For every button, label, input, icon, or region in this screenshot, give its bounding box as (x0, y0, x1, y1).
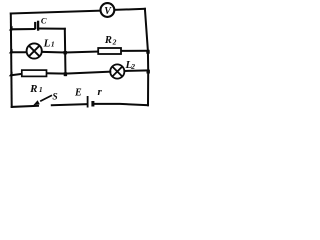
svg-text:L: L (43, 37, 51, 49)
wire L1 row to R2 (43, 52, 98, 53)
wire left side (10, 14, 13, 107)
resistor R2 (98, 48, 121, 54)
capacitor C plates (35, 21, 38, 31)
wire L1 row left (11, 51, 26, 53)
wire R1 row left (11, 74, 22, 75)
switch S blade (40, 95, 52, 101)
switch S arrowhead (33, 100, 40, 105)
svg-text:1: 1 (39, 85, 43, 94)
resistor R1 (22, 70, 47, 76)
wire right side (145, 9, 148, 105)
node junction dot (R1 row) (9, 72, 13, 77)
node X junction dot (R1 row) (64, 72, 67, 76)
node junction dot (L1 row) (9, 49, 13, 54)
svg-text:S: S (52, 93, 57, 103)
wire L2 to right side (124, 69, 148, 72)
node B junction dot (R2 row) (146, 50, 149, 53)
wire R2 to right side (121, 50, 149, 52)
node B junction dot (L2 row) (147, 70, 150, 73)
wire R1 to L2 (47, 72, 111, 74)
svg-text:r: r (98, 86, 103, 98)
wire middle vertical (node X) (64, 29, 67, 75)
battery E short plate (91, 101, 94, 107)
wire top-left (node A to voltmeter) (11, 11, 101, 14)
wire capacitor row right (39, 28, 65, 30)
svg-text:1: 1 (51, 39, 55, 48)
svg-text:R: R (104, 35, 112, 46)
svg-text:R: R (29, 83, 37, 95)
lamp L1 (27, 43, 42, 58)
battery E long plate (87, 96, 89, 108)
node A junction dot (capacitor row) (9, 26, 13, 31)
svg-text:2: 2 (112, 38, 117, 47)
wire bottom segment 3 (battery to node B) (95, 104, 149, 105)
svg-text:C: C (41, 15, 47, 25)
wire bottom segment 2 (switch to battery) (52, 104, 87, 105)
lamp L2 (110, 64, 124, 78)
wire bottom segment 1 (to switch) (12, 106, 38, 107)
wire capacitor row left (11, 28, 34, 30)
wire top-right (voltmeter to node B) (114, 9, 144, 10)
svg-text:E: E (74, 87, 82, 98)
voltmeter U1 (101, 3, 115, 17)
node X junction dot (L1 row) (64, 51, 67, 54)
svg-text:2: 2 (130, 62, 135, 71)
